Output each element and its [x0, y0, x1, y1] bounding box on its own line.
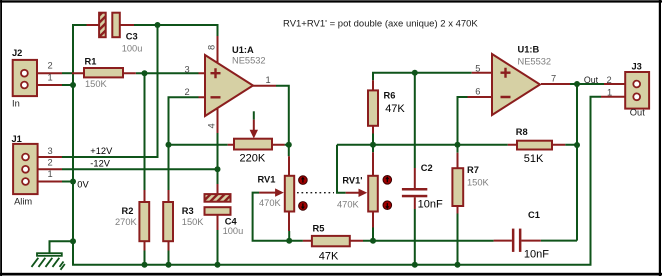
- svg-text:1: 1: [48, 169, 53, 179]
- svg-text:7: 7: [551, 74, 556, 84]
- wire: U1B output node to J3.2, R8 right, C1 right: [541, 84, 604, 241]
- capacitor C4 bottom plate: [205, 207, 231, 215]
- resistor R6 pin stubs: [372, 80, 374, 133]
- svg-text:RV1+RV1' = pot double (axe uni: RV1+RV1' = pot double (axe unique) 2 x 4…: [283, 18, 478, 29]
- connector J1 body: [13, 144, 37, 194]
- wire: ground net (left vertical, bottom rail, J3 pin1 riser): [50, 25, 602, 265]
- svg-text:3: 3: [48, 146, 53, 156]
- svg-text:R3: R3: [182, 206, 194, 216]
- wire: RV1 wiper loop to R5 left node: [253, 193, 303, 241]
- wire: R6/RV1' top node to R8, pin6, R7, wiper loop: [337, 97, 508, 193]
- ground symbol: [32, 241, 65, 270]
- svg-text:47K: 47K: [385, 103, 405, 115]
- svg-text:8: 8: [207, 45, 217, 50]
- svg-text:2: 2: [48, 61, 53, 71]
- connector J3 body: [625, 72, 649, 109]
- resistor R6 body: [368, 90, 378, 125]
- svg-text:C4: C4: [225, 217, 238, 227]
- svg-text:100u: 100u: [122, 43, 143, 53]
- svg-text:R2: R2: [122, 206, 134, 216]
- resistor R3 body: [163, 202, 173, 241]
- svg-text:2: 2: [607, 75, 612, 85]
- capacitor C3 left plate (hatched): [99, 13, 106, 38]
- svg-text:J2: J2: [12, 48, 22, 58]
- svg-text:6: 6: [475, 87, 480, 97]
- potentiometer 220K pin stubs: [228, 120, 285, 145]
- connector J2 pin stubs: [27, 73, 62, 85]
- resistor R3 pin stubs: [168, 190, 170, 251]
- RV1 adjust buttons: [299, 176, 308, 185]
- connector J3 pin circles: [633, 81, 640, 88]
- resistor R2 body: [139, 202, 149, 241]
- wire: U1A pin2 node to 220K left, R3: [169, 97, 228, 190]
- connector J3 pin stubs: [601, 84, 647, 97]
- svg-text:R1: R1: [85, 57, 97, 67]
- potentiometer RV1' pin stubs: [346, 152, 373, 227]
- capacitor C2 pin stubs: [414, 168, 416, 209]
- svg-text:3: 3: [185, 64, 190, 74]
- svg-text:470K: 470K: [337, 200, 360, 210]
- svg-text:47K: 47K: [319, 250, 339, 262]
- RV1 wiper arrowhead: [275, 188, 284, 196]
- wire: +12V net (top rail, C3 right, U1A pin8): [62, 25, 218, 157]
- svg-text:U1:A: U1:A: [232, 45, 254, 55]
- op-amp U1:B pin stubs: [468, 73, 571, 97]
- svg-text:NE5532: NE5532: [518, 57, 552, 67]
- svg-text:10nF: 10nF: [418, 198, 443, 210]
- svg-text:-12V: -12V: [90, 159, 110, 169]
- RV1' wiper arrowhead: [359, 189, 368, 197]
- svg-text:C2: C2: [421, 163, 433, 173]
- svg-text:150K: 150K: [467, 178, 490, 188]
- 220K wiper arrowhead: [250, 130, 258, 139]
- wire: U1B pin5 node, R6 top, C2 top: [373, 73, 472, 168]
- svg-text:J1: J1: [12, 134, 22, 144]
- resistor R8 pin stubs: [508, 144, 565, 146]
- capacitor C4 top plate (hatched): [205, 194, 231, 202]
- svg-text:2: 2: [48, 158, 53, 168]
- potentiometer 220K body: [234, 139, 272, 150]
- wire: R1 out to U1A pin3, R2 top: [136, 73, 199, 190]
- svg-text:5: 5: [475, 64, 480, 74]
- potentiometer RV1' body: [368, 176, 378, 212]
- svg-text:U1:B: U1:B: [518, 44, 540, 54]
- svg-text:1: 1: [266, 75, 271, 85]
- potentiometer RV1 pin stubs: [259, 156, 289, 231]
- resistor R7 pin stubs: [457, 153, 459, 214]
- resistor R1 body: [84, 68, 123, 77]
- potentiometer RV1 body: [285, 176, 294, 212]
- svg-text:51K: 51K: [524, 153, 544, 165]
- connector J2 pin circles: [21, 70, 28, 77]
- resistor R7 body: [452, 168, 463, 206]
- svg-text:150K: 150K: [85, 79, 108, 89]
- connector J2 body: [13, 60, 37, 96]
- mechanical coupling dotted line RV1-RV1': [297, 192, 334, 194]
- svg-text:NE5532: NE5532: [232, 56, 266, 66]
- connector J1 pin circles: [22, 154, 29, 161]
- wire: J1.1 0V to ground: [62, 181, 73, 183]
- resistor R8 body: [517, 141, 552, 150]
- svg-text:1: 1: [48, 72, 53, 82]
- svg-text:C1: C1: [528, 210, 540, 220]
- svg-text:R8: R8: [516, 127, 528, 137]
- capacitor C3 right plate: [112, 13, 120, 38]
- wire: J2.1 to ground: [62, 84, 73, 86]
- resistor R5 pin stubs: [303, 240, 363, 242]
- svg-text:C3: C3: [126, 32, 138, 42]
- svg-text:J3: J3: [632, 62, 642, 72]
- op-amp U1:B triangle: [492, 54, 540, 115]
- op-amp U1:A triangle: [205, 55, 253, 116]
- svg-text:Out: Out: [630, 108, 645, 118]
- svg-text:Out: Out: [584, 75, 599, 85]
- capacitor C1 plates: [512, 229, 515, 252]
- resistor R2 pin stubs: [144, 190, 146, 251]
- connector J1 pin stubs: [28, 157, 62, 182]
- svg-text:R7: R7: [467, 165, 479, 175]
- svg-text:RV1': RV1': [342, 176, 362, 186]
- capacitor C2 plates: [402, 188, 427, 191]
- wire: U1A output to 220K right and RV1 top: [276, 86, 289, 157]
- wire: input J2.2 to R1: [62, 72, 72, 74]
- svg-text:470K: 470K: [259, 198, 282, 208]
- svg-text:+12V: +12V: [90, 146, 113, 156]
- svg-text:10nF: 10nF: [524, 249, 549, 261]
- svg-text:270K: 270K: [115, 217, 138, 227]
- capacitor C4 pin stubs: [217, 184, 219, 230]
- svg-text:150K: 150K: [182, 217, 205, 227]
- RV1' adjust buttons: [383, 176, 392, 185]
- op-amp U1:A pin stubs: [199, 36, 277, 133]
- wire: R5 right node to C1, RV1' bottom: [363, 228, 494, 241]
- svg-text:0V: 0V: [77, 179, 89, 189]
- capacitor C1 pin stubs: [494, 240, 541, 242]
- svg-text:220K: 220K: [240, 152, 266, 164]
- svg-text:Alim: Alim: [14, 197, 32, 207]
- resistor R5 body: [312, 236, 350, 246]
- svg-text:R6: R6: [384, 91, 396, 101]
- wire: -12V net to C4: [62, 133, 218, 184]
- svg-text:1: 1: [607, 87, 612, 97]
- resistor R1 pin stubs: [72, 72, 136, 74]
- svg-text:In: In: [12, 99, 20, 109]
- svg-text:4: 4: [207, 123, 217, 128]
- capacitor C3 pin stubs: [87, 24, 135, 26]
- svg-text:RV1: RV1: [258, 174, 276, 184]
- svg-text:2: 2: [185, 87, 190, 97]
- svg-text:100u: 100u: [223, 226, 244, 236]
- wire: 220K wiper stub: [253, 111, 255, 119]
- svg-text:R5: R5: [313, 223, 325, 233]
